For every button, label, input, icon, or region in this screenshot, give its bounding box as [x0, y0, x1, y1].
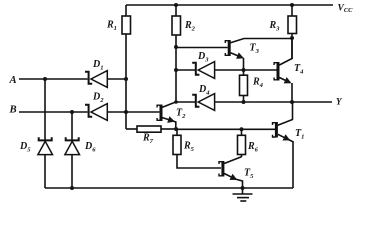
diode D1: [85, 71, 107, 88]
resistor R7: [126, 126, 176, 132]
node A-line/R1 junction: [124, 77, 128, 81]
svg-text:D3: D3: [197, 51, 209, 64]
svg-text:Y: Y: [336, 96, 343, 106]
svg-text:R5: R5: [183, 141, 195, 154]
ground: [233, 188, 253, 201]
resistor R2: [172, 5, 181, 102]
node T2-emitter/R7/R5 junction: [174, 127, 178, 131]
svg-text:D4: D4: [198, 84, 210, 97]
svg-text:D2: D2: [92, 91, 104, 104]
svg-text:VCC: VCC: [338, 3, 354, 14]
node R3-top junction: [290, 3, 294, 7]
node D5 junction: [43, 77, 47, 81]
transistor T4: [274, 38, 292, 102]
resistor R5: [173, 129, 221, 168]
svg-text:R7: R7: [142, 133, 154, 146]
wire input A: [19, 78, 126, 80]
node D6-bottom junction: [70, 186, 74, 190]
wire T3 base: [176, 47, 228, 49]
svg-text:A: A: [9, 74, 17, 86]
transistor T3: [225, 39, 292, 71]
node R6-top junction: [240, 127, 244, 131]
svg-text:D6: D6: [84, 141, 96, 154]
svg-text:B: B: [9, 104, 17, 116]
svg-text:R3: R3: [269, 20, 281, 33]
resistor R4: [240, 70, 248, 102]
svg-text:R1: R1: [106, 20, 117, 33]
diode D4: [192, 94, 214, 111]
svg-text:D1: D1: [92, 59, 104, 72]
resistor R1: [122, 5, 131, 129]
node D3 junction: [174, 68, 178, 72]
node R4-bottom junction on Y line: [242, 100, 246, 104]
wire Y line (D4 output line): [176, 101, 332, 103]
svg-text:D5: D5: [19, 141, 31, 154]
wire T1 base line: [176, 128, 275, 130]
transistor T1: [273, 102, 294, 188]
svg-text:R4: R4: [252, 77, 264, 90]
resistor R6: [238, 129, 246, 157]
svg-text:T1: T1: [295, 128, 304, 141]
node Y/T4-emitter/T1-collector junction: [290, 100, 294, 104]
diode D2: [85, 104, 107, 121]
node B-line/R1 junction: [124, 110, 128, 114]
node R2-top junction: [174, 3, 178, 7]
resistor R3: [288, 5, 297, 59]
node T3-base junction: [174, 45, 178, 49]
wire D3 line to T4 base: [176, 69, 277, 71]
wire bottom rail: [45, 187, 293, 189]
diode D5: [38, 79, 53, 188]
node R3-bottom/T3-collector junction: [290, 36, 294, 40]
node T3-emitter/R4/T4-base junction: [242, 68, 246, 72]
transistor T5: [219, 157, 243, 188]
svg-text:T3: T3: [250, 43, 260, 56]
node ground junction: [241, 186, 245, 190]
node T2-collector junction: [174, 100, 178, 104]
diode D6: [65, 112, 80, 188]
svg-text:T4: T4: [294, 63, 304, 76]
svg-text:R6: R6: [247, 141, 259, 154]
node D6 junction: [70, 110, 74, 114]
wire input B: [19, 111, 159, 113]
svg-text:R2: R2: [184, 20, 196, 33]
transistor T2: [157, 102, 176, 129]
wire Vcc top rail: [126, 4, 333, 6]
svg-text:T2: T2: [176, 108, 186, 121]
diode D3: [192, 62, 214, 79]
svg-text:T5: T5: [244, 168, 254, 181]
